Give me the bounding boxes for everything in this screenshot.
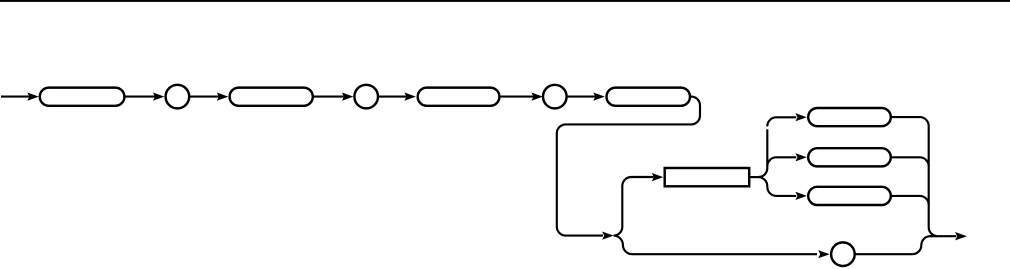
terminal box TC xyxy=(808,187,891,205)
terminal box T3 xyxy=(418,88,500,106)
terminal box T1 xyxy=(40,88,125,106)
arrow A4 xyxy=(342,93,354,101)
terminal box TB xyxy=(808,148,891,166)
arrow A11 xyxy=(795,113,807,121)
arrow A10 xyxy=(818,250,830,258)
wire TA out xyxy=(891,117,929,126)
wire T2 to C2 xyxy=(313,96,345,98)
wire rectangle out stub xyxy=(749,176,758,178)
arrow A1 xyxy=(27,93,39,101)
wire entry xyxy=(1,96,30,98)
terminal box T4 xyxy=(607,88,691,106)
arrow A9 xyxy=(652,173,664,181)
wire bypass after C4 xyxy=(855,253,913,255)
wire C3 to T4 xyxy=(567,96,596,98)
circle C3 xyxy=(543,85,567,109)
rule rectangle R1 xyxy=(665,168,750,186)
wire bypass S-up merge xyxy=(912,236,934,254)
wire C1 to T2 xyxy=(189,96,219,98)
wire T1 to C1 xyxy=(124,96,155,98)
circle C2 xyxy=(354,85,378,109)
wire T3 to C3 xyxy=(499,96,534,98)
terminal box T2 xyxy=(230,88,313,106)
circle C4 xyxy=(831,242,855,266)
arrow A8 xyxy=(602,232,614,240)
arrow A3 xyxy=(217,93,229,101)
wire C2 to T3 xyxy=(378,96,407,98)
arrow A7 xyxy=(593,93,605,101)
circle C1 xyxy=(166,85,190,109)
wire TC out xyxy=(891,196,929,205)
arrow A12 xyxy=(795,153,807,161)
terminal box TA xyxy=(808,108,891,126)
wire descent from T4 xyxy=(557,97,700,236)
wire collector down xyxy=(929,126,938,236)
wire branch down from stub xyxy=(758,177,796,196)
wire exit xyxy=(930,235,956,237)
arrow A2 xyxy=(153,93,165,101)
arrow A13 xyxy=(795,192,807,200)
wire branch mid from vertical xyxy=(767,157,796,166)
wire TB out xyxy=(891,157,929,166)
wire junction up to rectangle xyxy=(614,177,654,236)
wire junction down S to bypass xyxy=(614,236,817,255)
arrow A5 xyxy=(404,93,416,101)
wire branch up from stub xyxy=(758,129,767,177)
arrow A6 xyxy=(531,93,543,101)
top rule bar xyxy=(0,0,1010,2)
arrow A14 exit xyxy=(955,232,967,240)
